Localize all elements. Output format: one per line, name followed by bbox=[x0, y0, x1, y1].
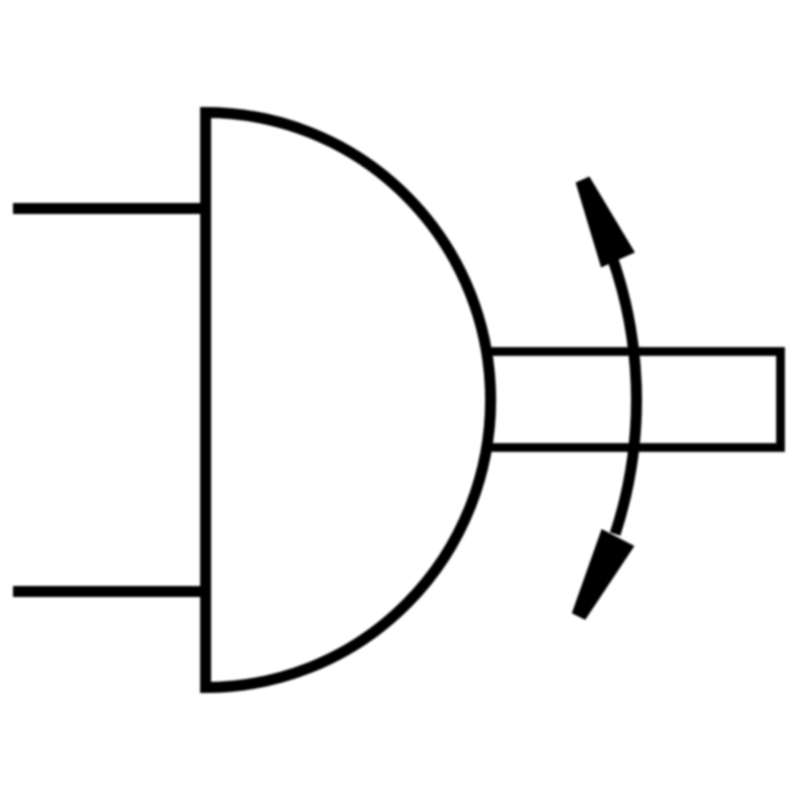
port line P2 (bottom left) bbox=[13, 586, 205, 597]
arrowhead top bbox=[576, 177, 635, 268]
rotation arrow arc bbox=[612, 258, 636, 534]
semi-rotary actuator body bbox=[206, 113, 491, 688]
arrowhead bottom bbox=[572, 529, 635, 620]
shaft rectangle bbox=[484, 352, 781, 448]
port line P1 (top left) bbox=[13, 203, 205, 214]
